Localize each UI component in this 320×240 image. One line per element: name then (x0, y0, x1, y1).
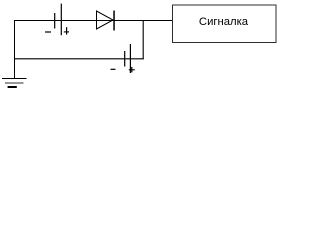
label - (GB1 negative) (45, 31, 51, 33)
wire top horizontal (left corner through battery GB1 and diode VD1 to box) (14, 20, 173, 22)
diode VD1 cathode bar (113, 11, 115, 31)
diode VD1 triangle (anode, open so wire shows through) (97, 11, 114, 29)
battery GB1 long plate (positive) (60, 4, 62, 36)
battery GB1 short plate (negative) (54, 13, 56, 29)
ground top bar (2, 78, 27, 80)
battery GB2 short plate (negative) (124, 51, 126, 67)
label + (GB1 positive) vertical stroke (66, 27, 68, 34)
label + (GB2 positive) horizontal stroke (129, 69, 135, 71)
battery GB2 long plate (positive) (129, 44, 131, 73)
svg-text:Сигналка: Сигналка (199, 16, 249, 28)
wire left vertical (top-left corner down to ground) (14, 20, 16, 78)
label + (GB2 positive) vertical stroke (131, 67, 133, 73)
box Сигналка bottom border (172, 42, 277, 44)
box Сигналка (alarm unit) left border (172, 5, 174, 44)
wire junction riser (top wire down to backup battery GB2 wire) (142, 20, 144, 59)
label + (GB1 positive) horizontal stroke (64, 31, 69, 33)
ground bottom bar (thick) (8, 86, 17, 88)
box Сигналка top border (172, 4, 277, 6)
box Сигналка right border (275, 5, 277, 44)
ground middle bar (5, 82, 24, 84)
wire second horizontal (left vertical through battery GB2 to junction riser) (14, 58, 144, 60)
label - (GB2 negative) (111, 68, 116, 70)
